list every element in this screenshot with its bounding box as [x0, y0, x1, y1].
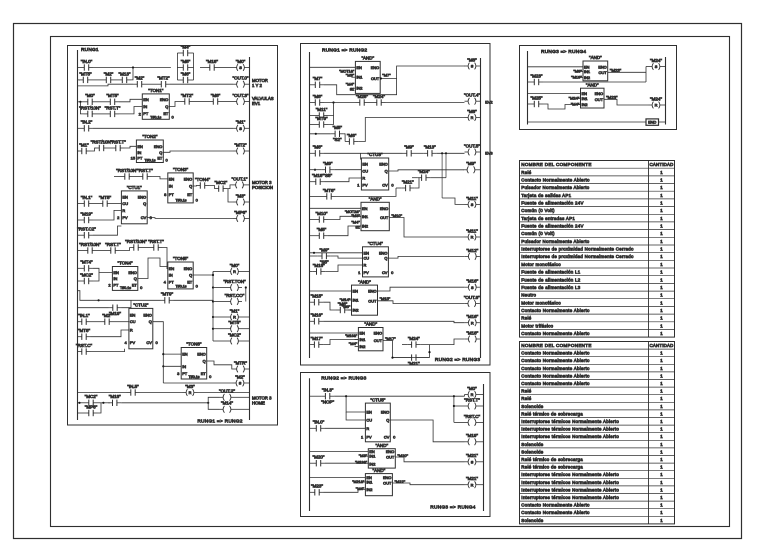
wire rung10a to bus — [174, 299, 214, 301]
wire bus to coil MT5c — [213, 328, 227, 330]
wire coil OUT.0 to rail — [248, 83, 250, 85]
wire coil M9 to rail — [479, 169, 481, 171]
svg-text:Pulsador Normalmente Abierto: Pulsador Normalmente Abierto — [521, 239, 589, 244]
wire coil M24S to rail — [664, 66, 666, 68]
wire branch rung1 — [77, 79, 80, 81]
svg-text:RUNG3 => RUNG4: RUNG3 => RUNG4 — [430, 505, 475, 511]
svg-text:EN: EN — [362, 206, 368, 211]
svg-text:"M2": "M2" — [235, 374, 245, 379]
wire AND2 OUT right — [389, 218, 464, 238]
svg-text:OUT: OUT — [383, 481, 392, 486]
coil MP6 — [233, 210, 248, 222]
svg-text:"MT5": "MT5" — [228, 320, 241, 325]
wire rung11 MT8 — [76, 336, 79, 338]
wire AND4 OUT to coil M18 — [383, 341, 430, 358]
svg-text:"M24": "M24" — [408, 336, 420, 341]
svg-text:Interruptores de proximidad No: Interruptores de proximidad Normalmente … — [521, 254, 634, 259]
svg-text:PT: PT — [169, 192, 175, 197]
svg-text:ENO: ENO — [143, 312, 151, 317]
svg-text:R: R — [130, 328, 133, 333]
wire coil OUT.1 to rail — [247, 184, 250, 186]
svg-text:"CTU2": "CTU2" — [133, 303, 148, 308]
and gate AND4 — [358, 322, 383, 351]
svg-text:ENO: ENO — [374, 331, 382, 336]
svg-text:EN: EN — [122, 194, 128, 199]
wire coil M8R to rail — [479, 117, 482, 119]
contact RST.T rung8b — [148, 239, 164, 251]
svg-text:EN: EN — [130, 312, 136, 317]
svg-text:PV: PV — [122, 215, 128, 220]
svg-text:"M20": "M20" — [313, 455, 325, 460]
wire MP6 parallel — [77, 412, 85, 414]
contact RST/10N — [79, 105, 101, 117]
svg-text:R: R — [655, 103, 658, 108]
svg-text:ENO: ENO — [379, 162, 387, 167]
svg-text:"M21": "M21" — [408, 361, 420, 366]
svg-text:"M5": "M5" — [317, 227, 327, 232]
contact MT9 parallel — [315, 116, 328, 128]
svg-text:OUT: OUT — [595, 97, 604, 102]
contact IN.0 B — [312, 420, 325, 432]
svg-text:"M16": "M16" — [466, 279, 478, 284]
svg-text:"M8": "M8" — [313, 94, 323, 99]
wire AND6 OUT to coil M21R — [392, 483, 464, 485]
contact M21 rung M4b — [401, 179, 414, 191]
node bus5 — [212, 328, 214, 330]
svg-text:IN2: IN2 — [369, 461, 375, 466]
svg-text:PT: PT — [113, 283, 119, 288]
contact RST.T rung8a — [105, 242, 121, 254]
contact MT2 rung2 — [157, 76, 170, 88]
svg-text:IN1: IN1 — [584, 69, 590, 74]
svg-text:"OUT.3": "OUT.3" — [233, 93, 249, 98]
node JM8 — [314, 169, 316, 171]
svg-text:END: END — [648, 120, 656, 125]
svg-text:Relé térmico de sobrecarga: Relé térmico de sobrecarga — [521, 465, 583, 470]
svg-text:"MT2": "MT2" — [157, 76, 170, 81]
svg-text:PT: PT — [169, 280, 175, 285]
svg-text:"M1": "M1" — [230, 308, 240, 313]
svg-text:Relé: Relé — [521, 389, 531, 394]
svg-text:IN1: IN1 — [369, 454, 375, 459]
wire bus to coil M2S — [163, 382, 232, 384]
svg-text:Relé: Relé — [521, 396, 531, 401]
wire to coil OUT.4 — [386, 102, 465, 104]
wire to AND7 EN — [528, 66, 583, 68]
svg-text:"MT4": "MT4" — [80, 260, 93, 265]
wire split to OUT.2 — [208, 397, 219, 403]
coil MTR — [233, 360, 248, 372]
contact MT2 rung3 — [181, 93, 194, 105]
contact M2 rung2 — [133, 76, 146, 88]
wire CTU5 Q to coil M19 — [390, 420, 464, 442]
svg-text:R: R — [362, 176, 365, 181]
node T6b — [162, 365, 164, 367]
contact MT5 rung7 — [99, 195, 112, 207]
svg-text:Contacto Normalmente Abierto: Contacto Normalmente Abierto — [521, 510, 590, 515]
wire rung3 — [97, 101, 107, 103]
contact M23 B — [311, 484, 324, 496]
coil M19 B — [465, 433, 480, 445]
contact RST.T rung6 — [137, 168, 153, 180]
wire rung2 — [77, 84, 133, 86]
right power rail L2 — [480, 58, 482, 358]
wire M10 seal — [310, 219, 315, 221]
svg-text:"RST/10N": "RST/10N" — [125, 239, 147, 244]
node J14a — [78, 402, 80, 404]
svg-text:"M3": "M3" — [185, 384, 195, 389]
svg-text:"TON2": "TON2" — [142, 134, 158, 139]
wire riser to coil M11S — [442, 198, 464, 204]
panel RUNG1 border — [68, 46, 278, 426]
node bus4 — [212, 316, 214, 318]
wire to AND8 EN — [528, 93, 581, 95]
svg-text:EN: EN — [169, 176, 175, 181]
svg-text:"AND": "AND" — [375, 443, 388, 448]
wire to CTU4 EN — [310, 252, 363, 254]
svg-text:PT: PT — [182, 371, 188, 376]
svg-text:EN: EN — [359, 331, 365, 336]
svg-text:"M6": "M6" — [347, 133, 357, 138]
wire rung2 — [146, 83, 157, 85]
wire coil M16R to rail — [479, 322, 482, 324]
coil OUT.6 — [464, 295, 480, 307]
svg-text:"M24": "M24" — [650, 58, 662, 63]
wire bus to coil M0R — [213, 271, 227, 273]
wire M7 seal path — [324, 79, 397, 95]
svg-text:OUT: OUT — [368, 298, 377, 303]
wire coil M1 to rail — [248, 127, 250, 129]
contact M5 rung M3 — [331, 125, 344, 142]
svg-text:"M8": "M8" — [211, 93, 221, 98]
svg-text:CV: CV — [384, 435, 390, 440]
svg-text:"MC2": "MC2" — [228, 332, 241, 337]
svg-text:R: R — [471, 115, 474, 120]
wire coil M24S lead — [646, 66, 649, 68]
node JM4 — [445, 152, 447, 154]
contact MT6 — [323, 188, 336, 200]
wire rung10b right — [122, 300, 132, 307]
svg-text:ENO: ENO — [154, 144, 162, 149]
wire CTU5 CU feed — [346, 412, 365, 420]
coil OUT.5 — [464, 143, 480, 155]
wire rung3 — [77, 101, 84, 103]
contact MC2 parallel — [80, 272, 93, 284]
svg-text:Interruptores térmicos Normalm: Interruptores térmicos Normalmente Abier… — [521, 427, 619, 432]
svg-text:"M4": "M4" — [351, 220, 360, 225]
END box — [646, 119, 659, 125]
svg-text:CV: CV — [382, 183, 388, 188]
wire branch — [92, 79, 102, 81]
svg-text:OUT: OUT — [380, 215, 389, 220]
svg-text:IN: IN — [143, 104, 147, 109]
svg-text:"OUT.4": "OUT.4" — [464, 93, 480, 98]
contact MT8 — [78, 328, 91, 340]
svg-text:"S5": "S5" — [323, 173, 332, 178]
wire rung13 — [77, 392, 127, 394]
coil M3 reset — [183, 384, 198, 396]
and gate AND6 — [365, 468, 392, 496]
coil RST.C B — [464, 414, 481, 426]
wire coil M14 to rail — [235, 408, 250, 410]
wire coil OUT.3 to rail — [248, 101, 250, 103]
wire AND7 out to riser — [608, 71, 646, 73]
wire rung14 — [98, 402, 110, 404]
svg-text:"MP6": "MP6" — [234, 210, 247, 215]
sheet inner border — [51, 37, 730, 527]
svg-text:Solenoide: Solenoide — [521, 449, 543, 454]
contact M2 rung11 — [101, 313, 114, 325]
svg-text:Q: Q — [149, 319, 152, 324]
contact M5 — [177, 59, 193, 71]
coil OUT.0 — [233, 76, 249, 88]
contact M21 rung M8 — [407, 354, 420, 366]
wire riser to RST coils — [453, 396, 455, 422]
coil MT5 column — [227, 320, 242, 332]
contact RST/10N rung5 — [91, 139, 113, 151]
svg-text:S: S — [471, 460, 474, 465]
svg-text:Fuente de alimentación 24V: Fuente de alimentación 24V — [521, 224, 583, 229]
counter CTU4 — [363, 241, 389, 277]
svg-text:ENO: ENO — [598, 64, 606, 69]
wire rung M4 — [310, 152, 311, 154]
svg-text:"M1": "M1" — [79, 142, 89, 147]
svg-text:Neutro: Neutro — [521, 293, 536, 298]
svg-text:"TON1": "TON1" — [148, 88, 164, 93]
svg-text:"RST.T": "RST.T" — [137, 168, 153, 173]
svg-text:"AND": "AND" — [369, 197, 382, 202]
svg-text:S: S — [239, 65, 242, 70]
contact M9 rung M4 — [403, 145, 416, 157]
contact M1 rung5 — [78, 142, 91, 154]
svg-text:"OUT.2": "OUT.2" — [219, 389, 235, 394]
svg-text:"M3": "M3" — [236, 193, 246, 198]
wire rung11 to CTU2 — [114, 321, 129, 323]
svg-text:OUT: OUT — [371, 76, 380, 81]
svg-text:"M18": "M18" — [109, 394, 121, 399]
svg-text:"IN.2": "IN.2" — [81, 120, 93, 125]
wire M16 rung M8 — [309, 320, 311, 322]
wire to AND5 EN — [309, 451, 368, 453]
wire rung B2 — [309, 427, 312, 429]
svg-text:Interruptores térmicos Normalm: Interruptores térmicos Normalmente Abier… — [521, 434, 619, 439]
svg-text:"IN.5": "IN.5" — [127, 384, 139, 389]
svg-text:IN: IN — [169, 273, 173, 278]
wire rung11 — [91, 321, 101, 323]
svg-text:"MC2": "MC2" — [80, 272, 93, 277]
wire to AND3 EN — [310, 290, 352, 292]
contact M18 rung14 — [108, 394, 121, 406]
wire MT6 right — [336, 188, 397, 196]
svg-text:"M12": "M12" — [466, 248, 478, 253]
svg-text:S: S — [471, 285, 474, 290]
svg-text:EV1: EV1 — [252, 101, 261, 106]
wire M25 row — [528, 103, 530, 105]
svg-text:"M7": "M7" — [313, 76, 323, 81]
wire TON5 Q to coil bus — [193, 272, 213, 276]
svg-text:"M19": "M19" — [571, 75, 582, 80]
contact M17 rung M8 — [310, 336, 323, 348]
svg-text:CANTIDAD: CANTIDAD — [649, 343, 673, 348]
contact M0 rung3 — [84, 93, 97, 105]
svg-text:Interruptores térmicos Normalm: Interruptores térmicos Normalmente Abier… — [521, 480, 619, 485]
svg-text:OUT: OUT — [386, 455, 395, 460]
svg-text:"IN.1": "IN.1" — [81, 195, 93, 200]
svg-text:EN: EN — [356, 65, 362, 70]
coil M16 reset — [465, 314, 480, 326]
table 2 component list — [520, 342, 675, 524]
svg-text:"AND": "AND" — [361, 56, 374, 61]
counter CTU2 — [129, 303, 153, 349]
svg-text:"M0": "M0" — [236, 59, 246, 64]
svg-text:"M19": "M19" — [81, 211, 93, 216]
svg-text:PV: PV — [364, 270, 370, 275]
svg-text:R: R — [122, 208, 125, 213]
svg-text:Q: Q — [386, 418, 389, 423]
contact M11 — [315, 107, 328, 119]
contact M9 rung M6 — [318, 247, 331, 264]
svg-text:"M4": "M4" — [571, 102, 580, 107]
svg-text:"M9": "M9" — [319, 247, 329, 252]
svg-text:"M24": "M24" — [373, 94, 385, 99]
svg-text:"M18": "M18" — [313, 263, 325, 268]
timer TON4 — [112, 261, 137, 291]
svg-text:"MT2": "MT2" — [234, 142, 247, 147]
node J14b — [102, 402, 104, 404]
coil M8 reset — [465, 109, 480, 121]
wire rung9 to TON4 — [93, 268, 112, 272]
svg-text:EN: EN — [169, 266, 175, 271]
wire AND5 OUT to coil M21S — [395, 457, 464, 462]
wire TON3 Q out — [193, 185, 196, 188]
wire rung7 RST.C2 branch — [77, 234, 80, 236]
node JM2 — [315, 133, 317, 135]
svg-text:"M21": "M21" — [466, 476, 478, 481]
wire to coil RST.T B — [454, 405, 465, 407]
timer TON5 — [168, 256, 193, 289]
svg-text:S: S — [471, 64, 474, 69]
parallel branch frame M4 group — [176, 53, 178, 80]
svg-text:IN: IN — [182, 364, 186, 369]
contact MC2 rung14 — [85, 394, 98, 406]
node J10 — [98, 299, 100, 301]
svg-text:"M19": "M19" — [466, 433, 478, 438]
svg-text:EN: EN — [182, 352, 188, 357]
svg-text:IN2: IN2 — [582, 102, 588, 107]
wire coil M3 to rail — [248, 201, 250, 203]
wire CTU3 Q to coil M9 — [389, 170, 464, 171]
svg-text:"M7": "M7" — [382, 72, 391, 77]
svg-text:"RST.TON": "RST.TON" — [223, 279, 246, 284]
svg-text:T#0.1s: T#0.1s — [176, 285, 187, 289]
svg-text:PT: PT — [143, 111, 149, 116]
panel RUNG3-RUNG4 border — [520, 46, 677, 130]
left power rail L4 — [527, 51, 529, 125]
wire rung4 to coil M1 — [93, 127, 233, 129]
svg-text:ET: ET — [163, 111, 169, 116]
svg-text:Pulsador Normalmente Abierto: Pulsador Normalmente Abierto — [521, 185, 589, 190]
contact M13 rung M4 — [423, 145, 436, 157]
wire bus to coil RST.CO — [213, 301, 227, 303]
svg-text:Q: Q — [143, 201, 146, 206]
wire AND1 OUT to coil M8S — [380, 66, 465, 79]
svg-text:ENO: ENO — [381, 410, 389, 415]
coil OUT.2 — [219, 389, 235, 401]
wire rung11 RST.C — [76, 351, 79, 353]
wire rung10a — [99, 299, 161, 301]
wire rung M2 — [369, 102, 373, 104]
right power rail L1 — [249, 57, 251, 420]
svg-text:"IN.0": "IN.0" — [313, 420, 325, 425]
contact RST/10N rung8b — [125, 239, 147, 251]
svg-text:R: R — [233, 269, 236, 274]
wire rung M2 — [310, 102, 311, 104]
svg-text:Contacto Normalmente Abierto: Contacto Normalmente Abierto — [521, 331, 590, 336]
wire rung4 — [77, 127, 80, 129]
wire M9b — [310, 169, 321, 171]
svg-text:"M15": "M15" — [380, 296, 391, 301]
svg-text:RUNG2 => RUNG3: RUNG2 => RUNG3 — [435, 357, 480, 363]
wire rung1 to M18 — [200, 67, 206, 69]
svg-text:"OUT.5": "OUT.5" — [464, 143, 480, 148]
svg-text:IN2: IN2 — [584, 75, 590, 80]
wire M4 stub — [351, 87, 355, 89]
svg-text:"M2": "M2" — [135, 76, 145, 81]
svg-text:"M2": "M2" — [102, 313, 112, 318]
node bus3 — [212, 300, 214, 302]
node JM7 — [391, 357, 393, 359]
svg-text:IN2: IN2 — [356, 86, 362, 91]
svg-text:"RST.CO": "RST.CO" — [225, 293, 245, 298]
svg-text:"OUT.6": "OUT.6" — [464, 295, 480, 300]
wire branch to TON1 IN — [119, 107, 142, 114]
contact MT5 — [79, 71, 92, 83]
wire M21b left — [396, 187, 401, 189]
right power rail L3 — [483, 384, 485, 511]
svg-text:Interruptores térmicos Normalm: Interruptores térmicos Normalmente Abier… — [521, 495, 619, 500]
wire rung5 — [108, 147, 112, 149]
svg-text:"RST.C": "RST.C" — [76, 343, 93, 348]
svg-text:EN: EN — [364, 250, 370, 255]
svg-text:RUNG2 => RUNG3: RUNG2 => RUNG3 — [321, 376, 366, 382]
svg-text:IN: IN — [169, 184, 173, 189]
svg-text:"M9": "M9" — [466, 161, 476, 166]
wire coil OUT.6 to rail — [479, 303, 480, 305]
wire rung11 — [76, 321, 79, 323]
wire bus to coil M1R — [213, 316, 227, 318]
svg-text:"M4": "M4" — [356, 486, 365, 491]
svg-text:"M18": "M18" — [466, 330, 478, 335]
svg-text:R: R — [366, 426, 369, 431]
coil M1 reset — [227, 308, 242, 320]
svg-text:R: R — [233, 315, 236, 320]
svg-text:EV2: EV2 — [485, 100, 493, 105]
svg-text:"IN.1": "IN.1" — [78, 313, 90, 318]
svg-text:EN: EN — [137, 144, 143, 149]
wire rung14 — [77, 402, 85, 404]
contact M8 — [311, 94, 324, 106]
coil M12 — [465, 248, 480, 260]
svg-text:NOMBRE DEL COMPONENTE: NOMBRE DEL COMPONENTE — [521, 343, 591, 348]
svg-text:"MTR": "MTR" — [234, 360, 247, 365]
coil M0 set — [233, 59, 248, 71]
coil M0 reset B — [465, 386, 480, 398]
timer TON3 — [168, 167, 193, 203]
svg-text:"AND": "AND" — [373, 468, 386, 473]
contact M18 — [206, 59, 219, 71]
contact IN.2 — [80, 120, 93, 132]
svg-text:IN1: IN1 — [359, 337, 365, 342]
